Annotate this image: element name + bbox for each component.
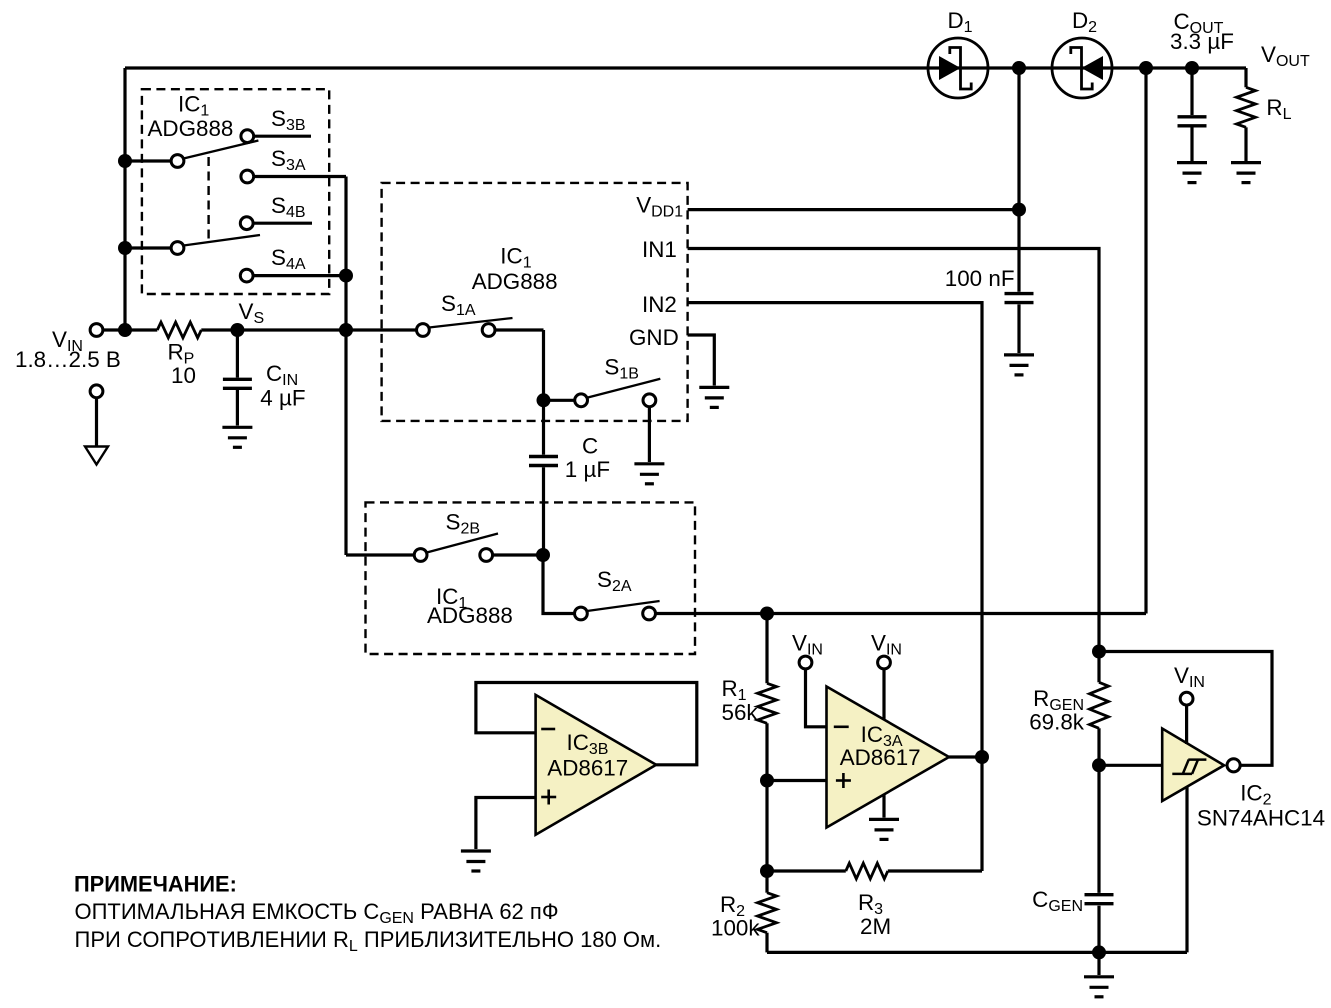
svg-text:ПРИМЕЧАНИЕ:: ПРИМЕЧАНИЕ: [74,872,237,897]
svg-text:ПРИ СОПРОТИВЛЕНИИ RL ПРИБЛИЗИТ: ПРИ СОПРОТИВЛЕНИИ RL ПРИБЛИЗИТЕЛЬНО 180 … [75,927,662,955]
svg-text:C: C [582,434,598,459]
svg-text:2M: 2M [860,914,891,939]
svg-text:ADG888: ADG888 [472,269,558,294]
svg-text:GND: GND [629,325,679,350]
svg-text:AD8617: AD8617 [840,745,921,770]
svg-text:ADG888: ADG888 [427,603,513,628]
svg-text:69.8k: 69.8k [1029,710,1085,735]
svg-text:1 µF: 1 µF [565,457,610,482]
svg-text:IN2: IN2 [642,292,677,317]
svg-text:100 nF: 100 nF [945,266,1015,291]
svg-text:SN74AHC14: SN74AHC14 [1197,806,1325,831]
svg-text:100k: 100k [711,916,760,941]
svg-text:AD8617: AD8617 [547,755,628,780]
svg-text:56k: 56k [722,700,759,725]
svg-text:IN1: IN1 [642,237,677,262]
svg-text:10: 10 [171,363,196,388]
svg-text:1.8…2.5 В: 1.8…2.5 В [15,347,121,372]
svg-text:ОПТИМАЛЬНАЯ ЕМКОСТЬ CGEN РАВНА: ОПТИМАЛЬНАЯ ЕМКОСТЬ CGEN РАВНА 62 пФ [75,899,559,927]
svg-text:3.3 µF: 3.3 µF [1170,29,1234,54]
svg-text:4 µF: 4 µF [260,386,305,411]
svg-text:ADG888: ADG888 [148,116,234,141]
